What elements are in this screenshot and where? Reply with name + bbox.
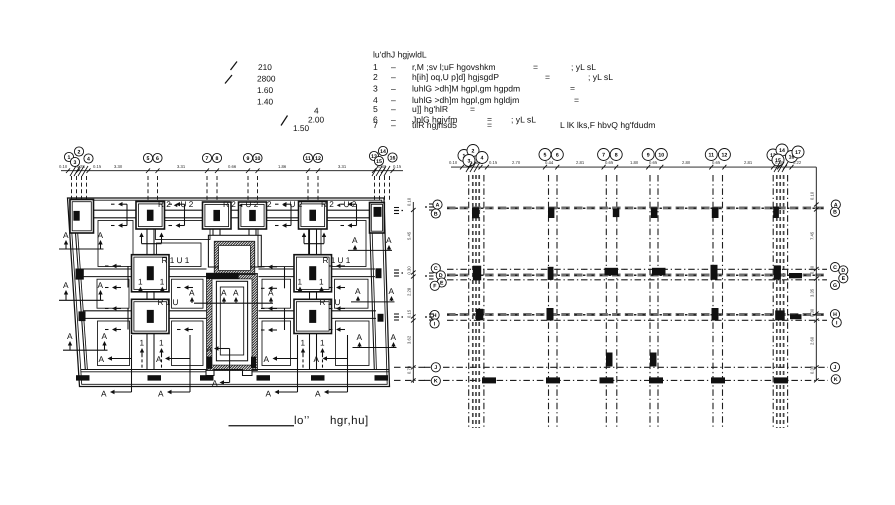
horizontal grid line C [447,268,827,270]
shaft bottom black corners [206,357,212,369]
stair core upper room hatched walls [214,241,254,274]
column plan bubble pair 11 12 [705,149,717,161]
footing grid 11-12 row2 [294,255,332,292]
stirrup arrows below footing 11-12 top [304,243,324,245]
svg-text:2: 2 [78,149,81,155]
section A-A arrows center through shaft [194,302,273,304]
svg-text:0.10: 0.10 [59,164,68,169]
horizontal grid line K [443,379,828,381]
footing top-left corner [70,200,94,234]
interior panel outlines [97,221,369,366]
svg-text:0.10: 0.10 [407,197,412,206]
grid bubble pair 9 10 [243,153,252,162]
svg-text:0.30: 0.30 [775,160,784,165]
svg-text:7: 7 [206,156,209,162]
row bubble B left [431,209,440,218]
svg-text:A: A [98,280,104,290]
column plan top-right bubble cluster [767,149,779,161]
beam vertical line 7-8 [213,229,220,236]
svg-text:R 2: R 2 [321,200,334,209]
row bubble K left [431,376,440,385]
columns row A-B [472,207,779,219]
shaft inner rectangles [216,281,247,361]
columns row J [606,353,657,367]
bottom strip wall columns (black) [76,375,388,380]
svg-text:A: A [63,230,69,240]
svg-text:A: A [99,354,105,364]
row bubble B right [830,207,839,216]
grid bubbles cluster top-right of foundation plan [369,151,378,160]
horizontal grid line H dark overlay [447,314,827,316]
note slash mark 3 [281,116,288,126]
beam cut marks row3 [105,306,121,310]
left plan right dimension line [412,202,414,383]
foundation right strip inner lines [370,233,374,370]
column plan top dimension values [449,160,802,165]
svg-text:R 1 U 1: R 1 U 1 [323,256,351,265]
svg-text:J: J [434,365,437,371]
svg-text:0.44: 0.44 [545,160,554,165]
svg-text:K: K [834,377,838,383]
svg-text:A: A [314,354,320,364]
svg-text:A: A [264,354,270,364]
svg-text:0.15: 0.15 [489,160,498,165]
svg-text:A: A [352,235,358,245]
svg-text:5: 5 [373,104,378,114]
svg-text:7.45: 7.45 [810,231,815,240]
svg-text:J: J [834,365,837,371]
foundation left strip inner lines [76,233,86,370]
svg-text:5.45: 5.45 [407,231,412,240]
drawing title underline [229,425,295,427]
svg-text:A: A [102,331,108,341]
horizontal grid line F [447,279,827,281]
row bubble I left [430,319,439,328]
svg-text:3.31: 3.31 [177,164,186,169]
row bubble A left [433,200,442,209]
svg-text:1.60: 1.60 [257,85,274,95]
svg-text:0.65: 0.65 [649,160,658,165]
svg-text:2800: 2800 [257,74,276,84]
svg-text:9: 9 [647,152,650,158]
svg-text:tilR hgjhsd5: tilR hgjhsd5 [412,120,457,130]
svg-text:–: – [391,84,396,94]
svg-text:3.18: 3.18 [470,160,479,165]
svg-text:A: A [391,332,397,342]
foundation boundary inner line [70,200,388,384]
svg-text:4: 4 [87,156,90,162]
column plan top dimension line [451,166,816,168]
svg-text:0.30: 0.30 [810,365,815,374]
row bubbles C D E F left [431,264,440,273]
svg-text:0.15: 0.15 [407,309,412,318]
svg-text:1.50: 1.50 [293,123,310,133]
svg-text:10: 10 [255,156,261,162]
beam vertical line 9-10 [249,229,256,236]
svg-text:2: 2 [472,148,475,154]
horizontal grid line D-E thick gray [447,274,827,277]
svg-text:1: 1 [320,339,325,348]
svg-text:F: F [433,284,436,290]
grid bubbles cluster top-left of foundation plan [64,152,73,161]
vertical grid line 5 [548,175,550,428]
footing grid 5-6 top [136,202,165,230]
svg-text:u]] hg'hlR: u]] hg'hlR [412,104,448,114]
svg-text:1: 1 [301,339,306,348]
foundation bottom strip inner edge [81,370,389,376]
svg-text:2: 2 [373,72,378,82]
note slash mark 1 [231,62,238,71]
svg-text:0.30: 0.30 [407,266,412,275]
svg-text:E: E [842,276,846,282]
svg-text:3.35: 3.35 [810,288,815,297]
svg-text:C: C [434,266,438,272]
note slash mark 2 [225,75,232,84]
svg-text:R 1 U: R 1 U [158,298,179,307]
footing grid 11-12 row3 [294,299,332,333]
svg-text:10: 10 [658,152,664,158]
svg-text:2.28: 2.28 [407,287,412,296]
svg-text:◄: ◄ [238,203,244,209]
column plan dimension hatch marks [466,162,480,172]
stirrup arrows below footing 5-6 top [142,243,162,245]
svg-text:8: 8 [216,156,219,162]
svg-text:16: 16 [390,155,396,161]
svg-text:A: A [355,286,361,296]
svg-text:; yL sL: ; yL sL [511,115,536,125]
stair core upper room outer outline [208,235,261,267]
svg-text:A: A [101,389,107,399]
column plan right dimension line [815,167,817,380]
svg-text:luhlG >dh]M hgpl,gm hgpdm: luhlG >dh]M hgpl,gm hgpdm [412,84,520,94]
svg-text:A: A [212,378,218,388]
svg-text:0.22: 0.22 [793,160,802,165]
svg-text:6: 6 [556,152,559,158]
svg-text:0.30: 0.30 [810,308,815,317]
svg-text:0.66: 0.66 [228,164,237,169]
grid bubble pair 5 6 [143,153,152,162]
grid bubble pair 11 12 [303,153,312,162]
dimension values top of foundation plan [59,164,402,169]
vertical grid line 7 [605,175,607,428]
svg-text:1: 1 [159,339,164,348]
svg-text:A: A [158,389,164,399]
column plan bubble pair 7 8 [598,149,610,161]
svg-text:1.86: 1.86 [278,164,287,169]
horizontal grid line J [443,366,828,368]
svg-text:–: – [391,62,396,72]
row bubble J left [431,363,440,372]
connector between shaft arrows [229,349,231,383]
beam row3 horizontal [84,311,132,319]
vertical grid line 6 [556,175,558,428]
footing grid 5-6 row2 [132,255,170,292]
grid leader lines right cluster [375,176,390,202]
horizontal grid line A-B thick gray [447,206,827,209]
svg-text:U 2: U 2 [246,200,259,209]
footing grid 5-6 row3 [132,299,170,333]
grid leader lines pairs [148,176,318,201]
svg-text:12: 12 [315,156,321,162]
grid leader lines left cluster [72,176,87,199]
vertical grid lines cluster 13-16 [773,175,787,428]
svg-text:; yL sL: ; yL sL [588,72,613,82]
svg-text:L lK lks,F hbvQ hg'fdu: L lK lks,F hbvQ hg'fdudm [560,120,655,130]
svg-text:A: A [436,202,440,208]
svg-text:2.60: 2.60 [810,336,815,345]
row bubble J right [830,363,839,372]
svg-text:14: 14 [779,148,785,154]
svg-text:=: = [533,62,538,72]
vertical grid line 11 [712,175,714,428]
beam vertical line 11-12 [310,229,317,255]
svg-text:3: 3 [373,84,378,94]
svg-text:A: A [63,280,69,290]
svg-text:–: – [391,104,396,114]
svg-text:=: = [545,72,550,82]
svg-text:0.10: 0.10 [810,191,815,200]
svg-text:A: A [386,235,392,245]
svg-text:0.70: 0.70 [407,365,412,374]
vertical grid line 8 [616,175,618,428]
svg-text:12: 12 [722,152,728,158]
row bubble K right [831,375,840,384]
footing top-right corner [370,203,385,234]
svg-text:lo’’: lo’’ [294,415,310,427]
svg-text:7: 7 [373,120,378,130]
svg-text:2.00: 2.00 [308,115,325,125]
svg-text:3.28: 3.28 [77,164,86,169]
svg-text:; yL sL: ; yL sL [571,62,596,72]
svg-text:2.80: 2.80 [682,160,691,165]
row continuation marks right of left plan [394,208,403,321]
horizontal grid line I [447,319,827,321]
svg-text:2.81: 2.81 [576,160,585,165]
svg-text:1.80: 1.80 [630,160,639,165]
beam cut marks row2 [105,264,121,268]
svg-text:0.30: 0.30 [378,164,387,169]
horizontal grid line D-E dark overlay [447,274,827,276]
svg-text:1: 1 [68,155,71,161]
svg-text:A: A [67,331,73,341]
svg-text:lu'dhJ hgjwldL: lu'dhJ hgjwldL [373,50,427,60]
svg-text:R 1 U 1: R 1 U 1 [162,256,190,265]
svg-text:C: C [833,265,837,271]
dimension hatch mark right [372,166,390,176]
horizontal grid line A dark overlay [447,207,827,209]
svg-text:h[ih] oq,U p]d] hgjsgdP: h[ih] oq,U p]d] hgjsgdP [412,72,499,82]
svg-text:A: A [389,286,395,296]
svg-text:hgr,hu]: hgr,hu] [330,415,369,427]
svg-text:4: 4 [481,155,484,161]
footing grid 9-10 top [239,202,267,229]
svg-text:r,M ;sv l;uF hgovshkm: r,M ;sv l;uF hgovshkm [412,62,496,72]
row bubbles C D E G right [830,263,839,272]
svg-text:1: 1 [160,278,165,287]
svg-text:H: H [833,312,837,318]
svg-text:–: – [391,120,396,130]
svg-text:210: 210 [258,62,272,72]
footing grid 7-8 top [203,202,232,229]
svg-text:5: 5 [147,156,150,162]
svg-text:3.31: 3.31 [338,164,347,169]
svg-text:1.40: 1.40 [257,97,274,107]
svg-text:A: A [266,389,272,399]
svg-text:3.30: 3.30 [114,164,123,169]
svg-text:0.15: 0.15 [393,164,402,169]
svg-text:2.70: 2.70 [512,160,521,165]
svg-text:2: 2 [267,200,272,209]
footing grid 11-12 top [299,202,328,230]
dimension line top of foundation plan [61,170,403,172]
svg-text:17: 17 [795,150,801,156]
svg-text:1: 1 [319,278,324,287]
svg-text:0.30: 0.30 [810,265,815,274]
svg-text:=: = [574,95,579,105]
grid bubble pair 7 8 [202,153,211,162]
horizontal grid line H thick gray [447,313,827,316]
svg-text:E: E [440,280,444,286]
svg-text:A: A [189,288,195,298]
beam row2 horizontal [82,269,132,277]
cut mark brackets row3 [127,309,129,330]
svg-text:R 2: R 2 [223,200,236,209]
column plan bubble pair 5 6 [539,149,551,161]
columns row C-D-E [473,265,802,281]
columns row H-I [476,308,802,321]
svg-text:=: = [570,84,575,94]
svg-text:0.10: 0.10 [449,160,458,165]
svg-text:14: 14 [380,149,386,155]
svg-text:B: B [434,211,438,217]
svg-text:0.65: 0.65 [712,160,721,165]
svg-text:2.81: 2.81 [744,160,753,165]
shaft top black wall segment [206,273,239,279]
section arrows below bottom strip with leaders [131,335,133,392]
svg-text:A: A [315,389,321,399]
cut mark brackets row2 [127,266,129,288]
svg-text:A: A [357,332,363,342]
dimension hatch mark left [70,166,88,176]
svg-text:K: K [434,379,438,385]
svg-text:5: 5 [544,152,547,158]
vertical grid line 12 [722,175,724,428]
svg-text:A: A [207,344,213,354]
beam cut marks top row [126,204,128,225]
row continuation marks left of column plan [424,204,434,380]
svg-text:A: A [221,288,227,298]
elevator shaft hatched walls [207,274,258,371]
svg-text:A: A [98,230,104,240]
svg-text:7: 7 [602,152,605,158]
vertical grid line 10 [657,175,659,428]
svg-text:0.65: 0.65 [605,160,614,165]
svg-text:1: 1 [138,278,143,287]
column plan top-left bubble cluster [458,150,470,162]
svg-text:9: 9 [247,156,250,162]
svg-text:B: B [833,210,837,216]
foundation outer boundary [68,198,390,387]
beam top row horizontal [94,210,137,218]
svg-text:=: = [487,120,492,130]
row bubble A right [831,200,840,209]
svg-text:11: 11 [305,156,311,162]
vertical grid line 9 [649,175,651,428]
svg-text:A: A [233,288,239,298]
svg-text:=: = [470,104,475,114]
svg-text:G: G [833,283,837,289]
svg-text:1: 1 [140,339,145,348]
svg-text:–: – [391,72,396,82]
vertical grid lines cluster 1-4 [469,175,484,428]
svg-text:11: 11 [709,152,715,158]
row bubble I right [832,318,841,327]
row J K continuation marks right of left plan [394,367,425,380]
column plan bubble pair 9 10 [642,149,654,161]
svg-text:R 1 U: R 1 U [320,298,341,307]
svg-text:1: 1 [298,278,303,287]
row bubble H left [430,310,439,319]
beam vertical line 5-6 [147,229,154,255]
columns row K [482,377,788,383]
boundary wall columns (black) [76,207,384,322]
svg-text:6: 6 [156,156,159,162]
svg-text:8: 8 [615,152,618,158]
svg-text:1: 1 [373,62,378,72]
row bubble H right [830,310,839,319]
svg-text:0.15: 0.15 [93,164,102,169]
svg-text:3.62: 3.62 [407,335,412,344]
